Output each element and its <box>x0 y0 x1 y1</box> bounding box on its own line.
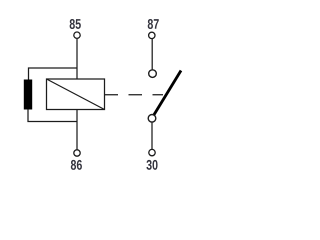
terminal 87 <box>149 32 155 38</box>
label 85 <box>70 19 81 29</box>
terminal 85 <box>74 32 80 38</box>
wire branch to resistor top <box>29 68 78 81</box>
switch arm Q (movable contact) <box>154 71 181 115</box>
wire resistor bottom to coil bottom wire <box>28 109 77 122</box>
mechanical linkage (dashed) <box>105 94 164 96</box>
terminal 86 <box>74 150 80 156</box>
label 86 <box>71 160 82 170</box>
wire coil bottom to terminal 86 <box>76 110 78 150</box>
wire 85 to coil top <box>76 39 78 79</box>
relay coil K1 <box>47 79 105 110</box>
wire contact to terminal 30 <box>151 122 153 149</box>
label 87 <box>148 19 159 29</box>
resistor R1 (parallel bar) <box>24 80 32 110</box>
terminal 30 <box>149 149 155 155</box>
contact point 87 side <box>149 70 157 78</box>
wire 87 to contact <box>151 39 153 69</box>
label 30 <box>146 160 157 170</box>
contact point 30 side <box>148 115 156 123</box>
